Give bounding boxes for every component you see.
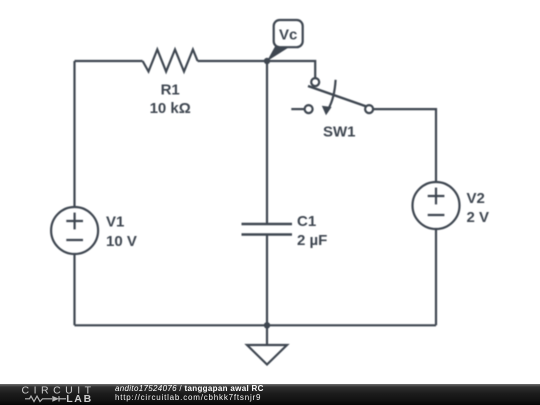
svg-text:R1: R1 — [161, 82, 180, 99]
node Vc junction dot — [264, 58, 270, 64]
svg-text:V1: V1 — [106, 214, 124, 231]
svg-text:LAB: LAB — [66, 393, 93, 405]
svg-text:Vc: Vc — [279, 27, 297, 44]
wire V2 bottom — [435, 229, 437, 325]
footer line 2 — [115, 393, 261, 402]
switch SW1 actuator arrow — [322, 80, 336, 116]
resistor R1 — [143, 50, 198, 72]
voltage source V2 — [413, 182, 460, 229]
svg-text:V2: V2 — [467, 190, 485, 207]
wire R1 right to node Vc — [198, 60, 267, 62]
footer bar — [0, 384, 540, 405]
svg-text:10 kΩ: 10 kΩ — [150, 100, 191, 117]
voltage source V1 — [51, 207, 98, 254]
svg-text:2 µF: 2 µF — [297, 232, 327, 249]
flag Vc — [267, 20, 303, 61]
footer line 1 — [115, 384, 264, 393]
CircuitLab logo — [0, 384, 110, 405]
capacitor C1 plates — [242, 224, 293, 235]
node bottom junction dot — [264, 322, 270, 328]
switch SW1 — [305, 78, 374, 113]
svg-text:C1: C1 — [297, 213, 316, 230]
wire left vertical V1 top — [73, 61, 75, 207]
svg-text:2 V: 2 V — [467, 209, 490, 226]
ground — [247, 325, 287, 364]
wire capacitor bottom — [266, 235, 268, 325]
wire top-left horizontal (V1 top to R1 left) — [75, 60, 143, 62]
svg-text:10 V: 10 V — [106, 233, 137, 250]
svg-text:SW1: SW1 — [323, 123, 356, 140]
wire left vertical V1 bottom — [73, 254, 75, 325]
wire switch left stub — [291, 108, 304, 110]
wire bottom horizontal — [75, 324, 437, 326]
wire node Vc to switch top — [267, 61, 315, 78]
wire switch right to V2 top — [373, 109, 436, 182]
wire capacitor top — [266, 61, 268, 224]
